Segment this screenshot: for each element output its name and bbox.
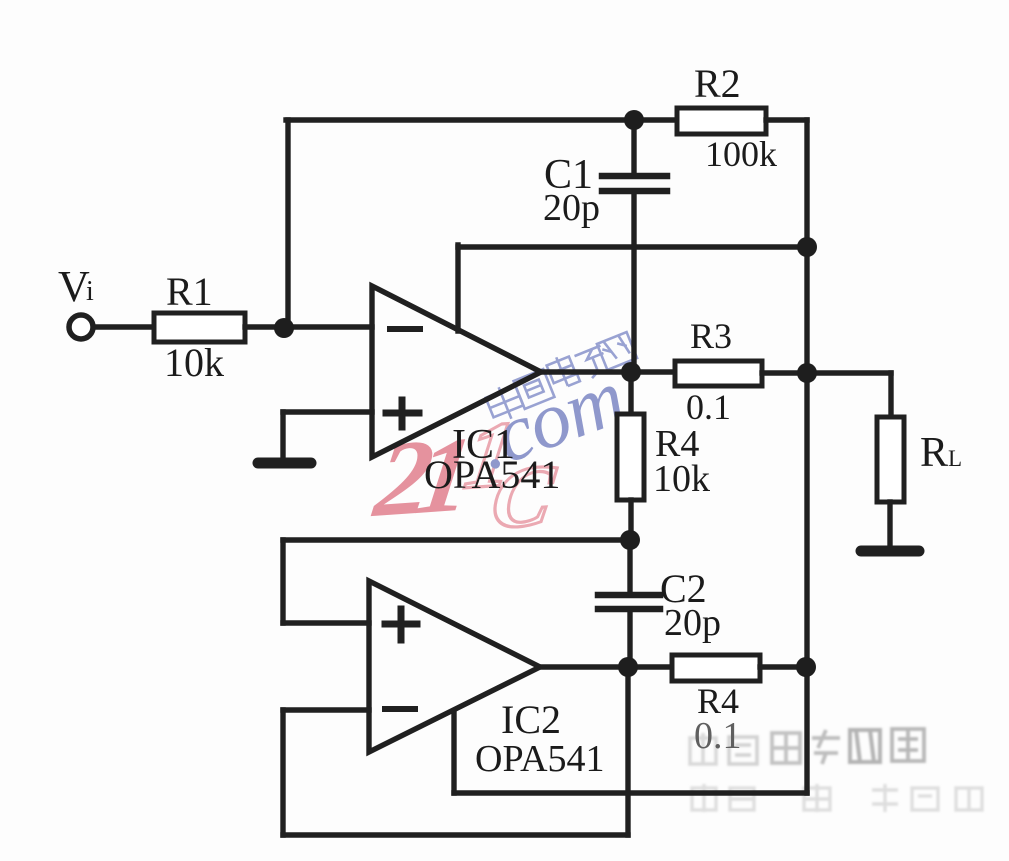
svg-text:100k: 100k	[705, 134, 777, 174]
svg-text:10k: 10k	[653, 458, 710, 500]
svg-text:10k: 10k	[164, 340, 224, 385]
svg-text:20p: 20p	[664, 602, 721, 644]
svg-text:i: i	[86, 276, 94, 307]
svg-text:R1: R1	[166, 269, 213, 314]
svg-text:IC2: IC2	[501, 697, 561, 742]
svg-text:R: R	[920, 430, 948, 476]
svg-text:20p: 20p	[543, 187, 600, 229]
svg-text:R2: R2	[694, 61, 741, 106]
svg-text:L: L	[948, 446, 962, 471]
svg-text:OPA541: OPA541	[475, 738, 605, 780]
svg-text:OPA541: OPA541	[424, 452, 560, 497]
svg-text:0.1: 0.1	[694, 715, 742, 757]
svg-text:0.1: 0.1	[686, 387, 731, 427]
svg-text:R3: R3	[690, 316, 732, 356]
